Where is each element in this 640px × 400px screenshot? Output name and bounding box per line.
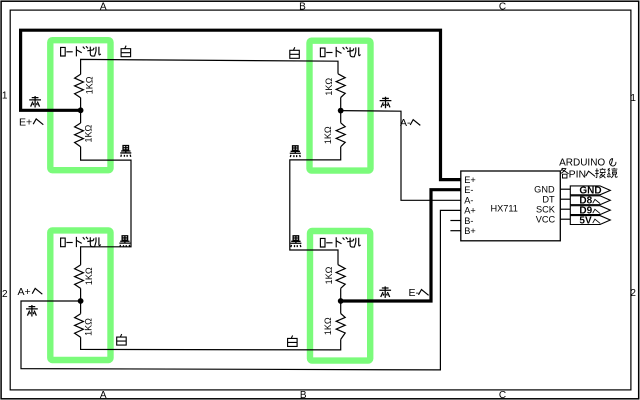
pin B- stub	[450, 220, 460, 222]
svg-text:1: 1	[2, 91, 8, 102]
label 赤 near LC1	[29, 96, 41, 107]
resistor 1KΩ LC1 lower	[80, 110, 82, 123]
svg-text:A+: A+	[18, 286, 31, 298]
wire white net top (LC1 to LC2)	[81, 59, 338, 74]
net flag 5V	[570, 216, 610, 225]
svg-text:GND: GND	[534, 185, 555, 195]
svg-text:1KΩ: 1KΩ	[323, 126, 333, 144]
svg-text:A-: A-	[464, 196, 473, 206]
svg-text:A+: A+	[464, 206, 476, 216]
resistor 1KΩ LC4 upper	[336, 265, 345, 289]
svg-text:E+: E+	[464, 175, 476, 185]
svg-text:1KΩ: 1KΩ	[323, 317, 333, 335]
svg-text:VCC: VCC	[536, 215, 556, 225]
label 白 near LC3	[117, 334, 127, 345]
wire A- net (LC2 junction to HX711 A-)	[341, 111, 461, 201]
junction node LC2 (A- net)	[338, 108, 344, 114]
wire E- net thick (LC4 junction to HX711 E-)	[341, 190, 461, 301]
svg-text:1KΩ: 1KΩ	[83, 124, 93, 142]
svg-text:B+: B+	[464, 226, 476, 236]
svg-text:E+: E+	[19, 116, 32, 128]
label 黒 near LC1	[120, 146, 131, 157]
label ロードセル LC1	[61, 46, 101, 56]
svg-text:DT: DT	[542, 195, 555, 205]
svg-text:SCK: SCK	[536, 205, 556, 215]
svg-text:E-: E-	[409, 287, 420, 299]
label 赤 near LC2	[380, 97, 392, 108]
svg-text:1KΩ: 1KΩ	[84, 267, 94, 285]
svg-text:1KΩ: 1KΩ	[85, 76, 95, 94]
svg-text:HX711: HX711	[490, 204, 517, 214]
svg-text:2: 2	[2, 289, 8, 300]
junction node LC4 (E- net)	[338, 298, 344, 304]
label ロードセル LC2	[320, 47, 360, 57]
wire black net right (LC2 bottom to LC4 top)	[290, 147, 341, 265]
resistor 1KΩ LC2 lower	[340, 111, 342, 123]
op-amp HX711 module box U1	[461, 171, 561, 241]
pin B+ stub	[450, 230, 460, 232]
svg-text:5V: 5V	[579, 215, 592, 226]
svg-text:A: A	[100, 1, 107, 12]
junction node LC3 (A+ net)	[78, 298, 84, 304]
resistor 1KΩ LC4 lower	[340, 301, 342, 314]
svg-text:ARDUINO: ARDUINO	[559, 158, 605, 169]
wire A+ net (LC3 junction to HX711 A+)	[21, 210, 461, 370]
label 白 near LC2	[290, 47, 300, 58]
svg-text:C: C	[499, 1, 506, 12]
resistor 1KΩ LC1 upper	[75, 74, 84, 98]
svg-text:PIN: PIN	[569, 169, 587, 181]
svg-text:B-: B-	[464, 216, 473, 226]
svg-text:E-: E-	[464, 185, 473, 195]
load cell LC1 green outline box	[50, 40, 110, 170]
net flag D9	[570, 206, 610, 215]
pin SCK stub	[560, 208, 570, 210]
label 白 near LC4	[288, 335, 298, 346]
label 黒 near LC2	[290, 146, 301, 157]
pin VCC stub	[560, 218, 570, 220]
svg-text:B: B	[299, 1, 306, 12]
label 白 near LC1	[121, 46, 131, 57]
wire black net left (LC1 bottom to LC3 top)	[81, 147, 131, 265]
svg-text:A-: A-	[400, 117, 411, 129]
load cell LC3 green outline box	[50, 230, 110, 360]
svg-text:B: B	[300, 390, 307, 400]
svg-text:1KΩ: 1KΩ	[83, 318, 93, 336]
pin DT stub	[560, 198, 570, 200]
load cell LC4 green outline box	[310, 231, 370, 361]
svg-text:A: A	[100, 390, 107, 400]
resistor 1KΩ LC2 upper	[336, 74, 345, 98]
resistor 1KΩ LC3 upper	[75, 265, 84, 289]
pin GND stub	[560, 188, 570, 190]
junction node LC1 (E+ net)	[78, 107, 84, 113]
label 黒 near LC4	[290, 236, 301, 247]
svg-text:2: 2	[630, 288, 636, 299]
net flag D8	[570, 196, 610, 205]
wire white net bottom (LC3 to LC4)	[81, 337, 341, 350]
resistor 1KΩ LC3 lower	[80, 301, 82, 314]
net flag GND	[570, 186, 610, 195]
svg-text:C: C	[499, 390, 506, 400]
svg-text:1KΩ: 1KΩ	[324, 266, 334, 284]
label ロードセル LC4	[320, 237, 360, 247]
svg-text:1KΩ: 1KΩ	[324, 78, 334, 96]
label 赤 near LC3	[26, 305, 38, 316]
label 黒 near LC3	[119, 236, 130, 247]
load cell LC2 green outline box	[310, 41, 371, 171]
label ロードセル LC3	[61, 237, 101, 247]
label 赤 near LC4	[379, 286, 391, 297]
svg-text:1: 1	[630, 93, 636, 104]
wire E+ net thick (LC1 junction to HX711 E+)	[21, 30, 461, 179]
